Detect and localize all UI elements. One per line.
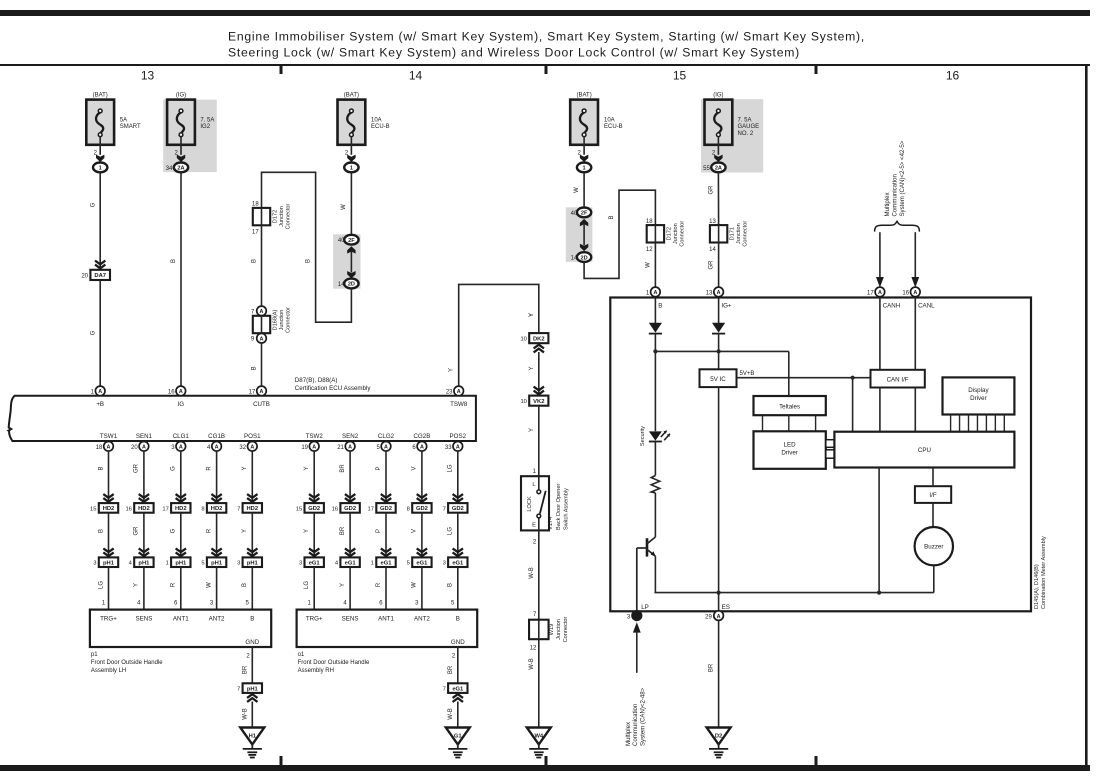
- svg-text:A: A: [878, 290, 882, 296]
- svg-text:CPU: CPU: [918, 447, 931, 454]
- svg-text:Y: Y: [340, 583, 346, 587]
- svg-text:LG: LG: [98, 581, 104, 589]
- svg-text:2: 2: [452, 654, 456, 660]
- svg-text:2A: 2A: [177, 166, 184, 172]
- svg-text:pH1: pH1: [138, 561, 150, 567]
- svg-text:CAN I/F: CAN I/F: [887, 376, 909, 383]
- svg-text:Connector: Connector: [563, 616, 569, 642]
- svg-text:B: B: [306, 259, 312, 263]
- svg-text:17: 17: [867, 291, 874, 297]
- svg-text:D87(B), D88(A): D87(B), D88(A): [295, 377, 338, 384]
- svg-text:B: B: [252, 366, 258, 370]
- svg-text:12: 12: [530, 646, 537, 652]
- svg-text:CLG2: CLG2: [378, 433, 395, 440]
- svg-text:A: A: [348, 445, 352, 451]
- svg-text:Junction: Junction: [736, 223, 742, 244]
- svg-text:A: A: [653, 290, 657, 296]
- svg-text:16: 16: [946, 69, 960, 83]
- svg-text:V174: V174: [548, 517, 554, 530]
- svg-text:B: B: [658, 303, 662, 310]
- svg-text:21: 21: [337, 445, 344, 451]
- svg-text:1: 1: [102, 601, 106, 607]
- svg-text:13: 13: [709, 219, 716, 225]
- svg-text:GR: GR: [709, 260, 715, 270]
- svg-text:GD2: GD2: [308, 506, 320, 512]
- svg-text:5: 5: [201, 561, 204, 567]
- svg-text:8: 8: [407, 506, 410, 512]
- svg-text:B: B: [252, 259, 258, 263]
- svg-text:3: 3: [443, 561, 446, 567]
- svg-text:Junction: Junction: [279, 310, 285, 331]
- svg-text:A: A: [179, 445, 183, 451]
- svg-text:eG1: eG1: [416, 561, 428, 567]
- svg-text:5: 5: [451, 601, 455, 607]
- svg-text:7. 5A: 7. 5A: [738, 118, 752, 124]
- svg-text:W19: W19: [549, 624, 555, 636]
- svg-text:29: 29: [705, 614, 712, 620]
- svg-text:4: 4: [343, 601, 347, 607]
- svg-text:10A: 10A: [371, 118, 382, 124]
- svg-text:POS2: POS2: [450, 433, 467, 440]
- svg-text:HD2: HD2: [175, 506, 187, 512]
- svg-text:G: G: [91, 330, 97, 335]
- svg-text:40: 40: [338, 238, 345, 244]
- svg-text:Assembly LH: Assembly LH: [91, 668, 126, 674]
- svg-text:4: 4: [335, 561, 339, 567]
- svg-text:2F: 2F: [348, 238, 355, 244]
- svg-text:(IG): (IG): [713, 92, 723, 98]
- svg-text:(BAT): (BAT): [576, 92, 591, 98]
- svg-text:A: A: [384, 445, 388, 451]
- svg-text:GD2: GD2: [416, 506, 428, 512]
- svg-text:3: 3: [237, 561, 240, 567]
- svg-text:GND: GND: [245, 639, 259, 646]
- svg-text:B: B: [242, 583, 248, 587]
- svg-text:Engine Immobiliser System (w/: Engine Immobiliser System (w/ Smart Key …: [228, 30, 865, 44]
- svg-text:A: A: [107, 445, 111, 451]
- svg-text:E: E: [532, 522, 536, 528]
- svg-text:A: A: [215, 445, 219, 451]
- svg-text:1: 1: [99, 166, 102, 172]
- svg-text:ANT1: ANT1: [173, 616, 189, 623]
- svg-text:V: V: [412, 529, 418, 533]
- svg-text:2D: 2D: [348, 282, 355, 288]
- svg-text:1: 1: [646, 291, 650, 297]
- svg-text:Y: Y: [304, 529, 310, 533]
- svg-text:DA7: DA7: [94, 273, 106, 279]
- svg-text:Y: Y: [529, 428, 535, 432]
- svg-text:R: R: [206, 466, 212, 471]
- svg-text:A: A: [179, 389, 183, 395]
- svg-text:HD2: HD2: [103, 506, 115, 512]
- svg-text:1: 1: [533, 469, 537, 475]
- svg-text:A: A: [420, 445, 424, 451]
- svg-text:19: 19: [301, 445, 308, 451]
- svg-text:3: 3: [415, 601, 419, 607]
- svg-text:2: 2: [533, 540, 537, 546]
- svg-text:D168(A): D168(A): [272, 309, 278, 330]
- svg-text:GD2: GD2: [344, 506, 356, 512]
- svg-text:Connector: Connector: [285, 203, 291, 229]
- svg-text:1: 1: [166, 561, 169, 567]
- svg-text:SENS: SENS: [135, 616, 152, 623]
- svg-text:3: 3: [93, 561, 96, 567]
- svg-text:Multiplex: Multiplex: [884, 192, 891, 216]
- svg-text:I/F: I/F: [929, 492, 936, 499]
- svg-text:1: 1: [583, 166, 586, 172]
- svg-text:R: R: [376, 582, 382, 587]
- svg-text:2: 2: [246, 654, 250, 660]
- svg-text:Y: Y: [529, 313, 535, 317]
- svg-text:CANH: CANH: [883, 303, 901, 310]
- svg-text:33: 33: [445, 445, 452, 451]
- svg-text:17: 17: [249, 390, 256, 396]
- svg-text:2D: 2D: [581, 255, 588, 261]
- svg-text:3: 3: [210, 601, 214, 607]
- svg-text:D2: D2: [715, 734, 722, 740]
- svg-text:4: 4: [137, 601, 141, 607]
- svg-text:System (CAN)<2-5> <42-5>: System (CAN)<2-5> <42-5>: [899, 140, 906, 216]
- svg-text:D172: D172: [666, 227, 672, 240]
- svg-text:Y: Y: [242, 529, 248, 533]
- svg-text:CLG1: CLG1: [173, 433, 190, 440]
- svg-text:16: 16: [902, 291, 909, 297]
- svg-text:R: R: [206, 528, 212, 533]
- svg-text:CG1B: CG1B: [208, 433, 225, 440]
- svg-text:ANT1: ANT1: [378, 616, 394, 623]
- svg-text:BR: BR: [709, 663, 715, 672]
- svg-text:B: B: [98, 529, 104, 533]
- svg-text:W: W: [412, 582, 418, 588]
- svg-text:B: B: [456, 616, 460, 623]
- svg-text:LG: LG: [448, 464, 454, 472]
- svg-text:14: 14: [709, 247, 716, 253]
- svg-text:DK2: DK2: [533, 336, 545, 342]
- svg-text:Junction: Junction: [556, 619, 562, 640]
- svg-text:17: 17: [368, 506, 374, 512]
- svg-text:B: B: [250, 616, 254, 623]
- svg-text:TRG+: TRG+: [100, 616, 117, 623]
- svg-text:eG1: eG1: [452, 561, 464, 567]
- svg-text:SMART: SMART: [120, 124, 141, 130]
- svg-text:16: 16: [168, 390, 175, 396]
- svg-text:LG: LG: [448, 527, 454, 535]
- svg-text:Y: Y: [529, 366, 535, 370]
- svg-text:Display: Display: [968, 387, 989, 394]
- svg-text:pH1: pH1: [103, 561, 115, 567]
- svg-text:G: G: [171, 528, 177, 533]
- svg-text:Front Door Outside Handle: Front Door Outside Handle: [91, 660, 163, 666]
- svg-text:B: B: [609, 215, 615, 219]
- svg-text:A: A: [260, 309, 264, 315]
- svg-text:14: 14: [571, 256, 578, 262]
- svg-text:A: A: [250, 445, 254, 451]
- svg-text:Junction: Junction: [673, 223, 679, 244]
- svg-text:VK2: VK2: [533, 399, 544, 405]
- svg-text:POS1: POS1: [244, 433, 261, 440]
- svg-text:Y: Y: [449, 368, 455, 372]
- svg-text:HD2: HD2: [246, 506, 258, 512]
- svg-text:A: A: [312, 445, 316, 451]
- svg-text:7: 7: [533, 612, 537, 618]
- svg-text:D171: D171: [730, 227, 736, 240]
- svg-text:W-B: W-B: [448, 708, 454, 720]
- svg-text:pH1: pH1: [175, 561, 187, 567]
- svg-text:Certification ECU Assembly: Certification ECU Assembly: [295, 385, 372, 392]
- svg-text:17: 17: [162, 506, 168, 512]
- svg-text:B: B: [171, 259, 177, 263]
- svg-text:7: 7: [443, 687, 446, 693]
- svg-text:ANT2: ANT2: [209, 616, 225, 623]
- svg-text:10A: 10A: [604, 118, 615, 124]
- svg-text:12: 12: [646, 247, 653, 253]
- svg-text:IG2: IG2: [200, 124, 210, 130]
- svg-text:3: 3: [299, 561, 302, 567]
- svg-text:BR: BR: [448, 665, 454, 674]
- svg-text:18: 18: [96, 445, 103, 451]
- svg-text:D145(A), D146(B): D145(A), D146(B): [1034, 564, 1040, 609]
- svg-text:o1: o1: [298, 652, 305, 658]
- svg-text:15: 15: [90, 506, 96, 512]
- svg-text:LOCK: LOCK: [527, 496, 533, 512]
- svg-text:Connector: Connector: [743, 221, 749, 247]
- svg-text:GR: GR: [134, 526, 140, 536]
- svg-text:16: 16: [332, 506, 338, 512]
- svg-text:G: G: [91, 202, 97, 207]
- svg-text:Combination Meter Assembly: Combination Meter Assembly: [1041, 536, 1047, 609]
- svg-text:Front Door Outside Handle: Front Door Outside Handle: [298, 660, 370, 666]
- svg-text:7: 7: [237, 687, 240, 693]
- svg-text:GR: GR: [708, 185, 714, 195]
- svg-text:3: 3: [627, 614, 631, 620]
- svg-text:4: 4: [207, 445, 211, 451]
- svg-text:W: W: [574, 187, 580, 193]
- svg-text:P: P: [376, 466, 382, 470]
- svg-text:A: A: [457, 389, 461, 395]
- svg-text:Back Door Opener: Back Door Opener: [556, 484, 562, 530]
- svg-text:eG1: eG1: [381, 561, 393, 567]
- svg-text:Communication: Communication: [632, 704, 639, 746]
- svg-text:23: 23: [446, 390, 453, 396]
- svg-text:1: 1: [350, 166, 353, 172]
- svg-text:A: A: [98, 389, 102, 395]
- svg-text:pH1: pH1: [211, 561, 223, 567]
- svg-text:eG1: eG1: [345, 561, 357, 567]
- svg-text:A: A: [717, 614, 721, 620]
- svg-text:Y: Y: [134, 583, 140, 587]
- svg-text:5: 5: [376, 445, 380, 451]
- svg-text:BR: BR: [340, 526, 346, 535]
- svg-text:HD2: HD2: [211, 506, 223, 512]
- svg-text:Connector: Connector: [679, 221, 685, 247]
- svg-text:LED: LED: [784, 442, 797, 449]
- svg-text:SEN2: SEN2: [342, 433, 359, 440]
- svg-text:20: 20: [131, 445, 138, 451]
- svg-text:5: 5: [246, 601, 250, 607]
- svg-text:Y: Y: [304, 466, 310, 470]
- svg-text:(IG): (IG): [176, 92, 186, 98]
- svg-text:15: 15: [673, 69, 687, 83]
- svg-text:A: A: [260, 389, 264, 395]
- svg-text:18: 18: [646, 219, 653, 225]
- svg-text:Y: Y: [242, 466, 248, 470]
- svg-text:LG: LG: [304, 581, 310, 589]
- svg-text:NO. 2: NO. 2: [738, 131, 754, 137]
- svg-text:Teltales: Teltales: [779, 403, 800, 410]
- svg-text:ECU-B: ECU-B: [371, 124, 390, 130]
- svg-text:A: A: [142, 445, 146, 451]
- svg-text:7: 7: [251, 309, 255, 315]
- svg-text:5V IC: 5V IC: [710, 376, 726, 383]
- svg-text:Steering Lock (w/ Smart Key Sy: Steering Lock (w/ Smart Key System) and …: [228, 46, 800, 60]
- svg-text:1: 1: [307, 601, 311, 607]
- svg-text:G: G: [171, 466, 177, 471]
- svg-text:3: 3: [171, 445, 175, 451]
- svg-text:GD2: GD2: [380, 506, 392, 512]
- svg-text:5A: 5A: [120, 118, 127, 124]
- svg-text:Switch Assembly: Switch Assembly: [564, 488, 570, 530]
- svg-text:W-B: W-B: [529, 567, 535, 579]
- svg-text:GAUGE: GAUGE: [738, 124, 760, 130]
- svg-text:LP: LP: [641, 604, 649, 611]
- svg-text:TRG+: TRG+: [306, 616, 323, 623]
- svg-text:ANT2: ANT2: [414, 616, 430, 623]
- svg-text:8: 8: [201, 506, 204, 512]
- svg-text:4: 4: [129, 561, 133, 567]
- svg-text:1: 1: [371, 561, 374, 567]
- svg-text:5: 5: [407, 561, 410, 567]
- svg-text:(BAT): (BAT): [344, 92, 359, 98]
- svg-text:Buzzer: Buzzer: [924, 544, 943, 551]
- svg-text:Multiplex: Multiplex: [625, 722, 632, 746]
- svg-text:6: 6: [412, 445, 416, 451]
- svg-text:G1: G1: [454, 734, 463, 740]
- svg-text:14: 14: [409, 69, 423, 83]
- svg-text:32: 32: [239, 445, 246, 451]
- svg-text:W4: W4: [534, 734, 543, 740]
- svg-text:13: 13: [706, 291, 713, 297]
- svg-text:B: B: [98, 466, 104, 470]
- svg-text:IG: IG: [178, 401, 185, 408]
- svg-text:W: W: [341, 204, 347, 210]
- svg-text:7: 7: [237, 506, 240, 512]
- svg-text:Security: Security: [640, 426, 646, 446]
- svg-text:System (CAN)<2-48>: System (CAN)<2-48>: [640, 687, 647, 746]
- svg-text:16: 16: [125, 506, 131, 512]
- svg-text:CANL: CANL: [918, 303, 935, 310]
- svg-text:TSW8: TSW8: [450, 401, 468, 408]
- svg-text:TSW2: TSW2: [306, 433, 324, 440]
- svg-text:TSW1: TSW1: [100, 433, 118, 440]
- svg-text:B: B: [635, 614, 639, 620]
- svg-text:GR: GR: [134, 463, 140, 473]
- svg-text:GND: GND: [451, 639, 465, 646]
- svg-text:2A: 2A: [715, 166, 722, 172]
- svg-text:Assembly RH: Assembly RH: [298, 668, 334, 674]
- svg-text:Junction: Junction: [279, 206, 285, 227]
- svg-text:GD2: GD2: [452, 506, 464, 512]
- svg-text:A: A: [913, 290, 917, 296]
- svg-text:D172: D172: [272, 210, 278, 223]
- svg-text:10: 10: [520, 337, 526, 343]
- svg-text:H1: H1: [249, 734, 257, 740]
- svg-text:W-B: W-B: [242, 708, 248, 720]
- svg-text:A: A: [456, 445, 460, 451]
- svg-text:eG1: eG1: [452, 686, 464, 692]
- svg-text:CG2B: CG2B: [413, 433, 430, 440]
- svg-text:V: V: [412, 466, 418, 470]
- svg-text:(BAT): (BAT): [93, 92, 108, 98]
- svg-text:18: 18: [252, 202, 259, 208]
- svg-text:B: B: [448, 583, 454, 587]
- svg-text:+B: +B: [96, 401, 104, 408]
- svg-text:2F: 2F: [581, 211, 588, 217]
- svg-text:17: 17: [252, 230, 259, 236]
- svg-text:9: 9: [251, 337, 255, 343]
- svg-text:13: 13: [141, 69, 155, 83]
- svg-text:Connector: Connector: [285, 307, 291, 333]
- svg-text:CUTB: CUTB: [253, 401, 270, 408]
- svg-text:A: A: [260, 336, 264, 342]
- svg-text:ES: ES: [722, 604, 730, 611]
- svg-text:7. 5A: 7. 5A: [200, 118, 214, 124]
- svg-text:7: 7: [443, 506, 446, 512]
- svg-text:R: R: [171, 582, 177, 587]
- svg-text:eG1: eG1: [309, 561, 321, 567]
- svg-text:6: 6: [174, 601, 178, 607]
- svg-text:pH1: pH1: [247, 686, 259, 692]
- svg-text:W-B: W-B: [529, 658, 535, 670]
- svg-text:SENS: SENS: [342, 616, 359, 623]
- svg-text:BR: BR: [340, 464, 346, 473]
- svg-text:IG+: IG+: [721, 303, 732, 310]
- svg-text:Communication: Communication: [891, 174, 898, 216]
- svg-text:Driver: Driver: [970, 395, 987, 402]
- svg-text:W: W: [206, 582, 212, 588]
- svg-text:40: 40: [571, 211, 578, 217]
- svg-text:Driver: Driver: [781, 450, 798, 457]
- svg-text:BR: BR: [242, 665, 248, 674]
- svg-text:14: 14: [338, 282, 345, 288]
- svg-text:SEN1: SEN1: [136, 433, 153, 440]
- svg-text:HD2: HD2: [138, 506, 150, 512]
- svg-text:55: 55: [703, 166, 710, 172]
- svg-text:W: W: [645, 262, 651, 268]
- svg-text:10: 10: [520, 399, 526, 405]
- svg-text:P: P: [376, 529, 382, 533]
- svg-text:pH1: pH1: [247, 561, 259, 567]
- svg-text:34: 34: [166, 166, 173, 172]
- svg-text:6: 6: [379, 601, 383, 607]
- svg-text:15: 15: [296, 506, 302, 512]
- svg-text:20: 20: [81, 274, 88, 280]
- svg-text:A: A: [717, 290, 721, 296]
- svg-text:p1: p1: [91, 652, 98, 658]
- svg-text:ECU-B: ECU-B: [604, 124, 623, 130]
- svg-text:5V+B: 5V+B: [740, 371, 755, 377]
